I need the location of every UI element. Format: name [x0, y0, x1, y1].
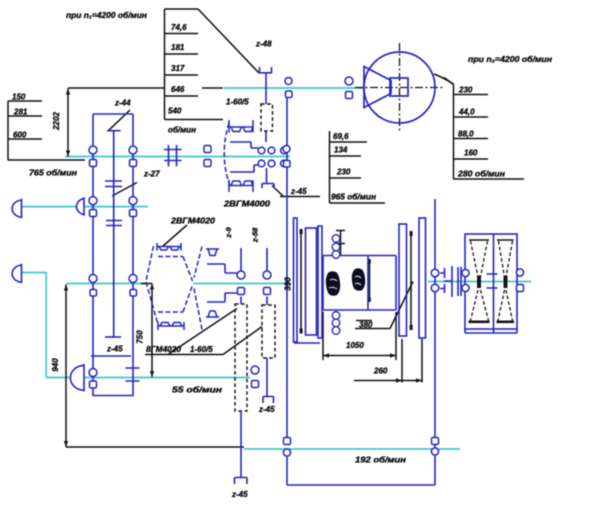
svg-text:940: 940 — [51, 358, 60, 372]
svg-text:при n₁=4200 об/мин: при n₁=4200 об/мин — [66, 11, 147, 20]
svg-text:317: 317 — [171, 64, 185, 73]
svg-text:74,6: 74,6 — [171, 23, 187, 32]
svg-text:2ВГМ4020: 2ВГМ4020 — [170, 217, 216, 226]
svg-text:88,0: 88,0 — [458, 130, 474, 139]
svg-text:646: 646 — [171, 85, 185, 94]
svg-text:2ВГМ4000: 2ВГМ4000 — [223, 200, 271, 209]
svg-text:z-45: z-45 — [290, 187, 307, 196]
svg-text:55 об/мин: 55 об/мин — [172, 386, 222, 395]
svg-text:z-27: z-27 — [143, 170, 160, 179]
svg-text:134: 134 — [334, 146, 348, 155]
svg-text:z-48: z-48 — [255, 40, 272, 49]
svg-text:z-45: z-45 — [258, 405, 275, 414]
svg-text:160: 160 — [464, 149, 478, 158]
svg-text:260: 260 — [373, 367, 388, 376]
svg-text:z-58: z-58 — [251, 227, 260, 243]
svg-text:230: 230 — [336, 168, 351, 177]
svg-text:z-45: z-45 — [106, 345, 123, 354]
svg-text:44,0: 44,0 — [458, 108, 475, 117]
svg-text:8ГМ4020: 8ГМ4020 — [146, 345, 182, 354]
svg-text:2202: 2202 — [52, 112, 61, 131]
svg-text:230: 230 — [458, 86, 473, 95]
svg-text:965 об/мин: 965 об/мин — [331, 193, 376, 202]
svg-text:181: 181 — [171, 43, 185, 52]
svg-text:z-45: z-45 — [231, 490, 248, 499]
svg-text:150: 150 — [12, 93, 26, 102]
svg-text:1050: 1050 — [346, 341, 364, 350]
svg-text:z-9: z-9 — [224, 226, 233, 238]
svg-text:об/мин: об/мин — [168, 126, 196, 135]
svg-text:750: 750 — [136, 330, 145, 344]
svg-text:69,6: 69,6 — [333, 132, 349, 141]
svg-text:1-60/5: 1-60/5 — [190, 345, 213, 354]
svg-text:192 об/мин: 192 об/мин — [355, 456, 406, 465]
svg-text:280 об/мин: 280 об/мин — [457, 170, 505, 179]
svg-text:765 об/мин: 765 об/мин — [29, 169, 77, 178]
svg-text:z-44: z-44 — [114, 99, 131, 108]
svg-text:при n₂=4200 об/мин: при n₂=4200 об/мин — [468, 55, 552, 64]
svg-text:540: 540 — [168, 107, 182, 116]
svg-text:281: 281 — [13, 108, 28, 117]
svg-text:390: 390 — [284, 277, 293, 291]
svg-text:380: 380 — [359, 321, 373, 330]
svg-text:600: 600 — [13, 131, 27, 140]
svg-text:1-60/5: 1-60/5 — [226, 98, 249, 107]
